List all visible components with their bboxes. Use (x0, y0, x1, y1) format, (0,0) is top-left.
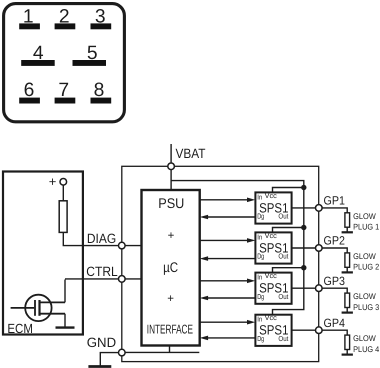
wire source to ground (64, 314, 66, 327)
arrowhead into U4 In (247, 279, 255, 284)
ground bar glow plug 2 (342, 271, 353, 273)
svg-text:+: + (168, 230, 175, 242)
svg-text:GP3: GP3 (324, 274, 346, 288)
junction Vcc rail to SPS1 (301, 185, 306, 190)
svg-text:GP2: GP2 (324, 234, 346, 248)
controller block U1 (142, 190, 200, 346)
pull-up resistor R1 (59, 201, 67, 233)
wire glow plug 3 to ground (346, 308, 348, 312)
pin GP1 (316, 205, 323, 212)
pin GP3 (316, 285, 323, 292)
svg-text:GLOW: GLOW (353, 252, 376, 261)
svg-text:PLUG 4: PLUG 4 (353, 345, 379, 354)
svg-text:Out: Out (278, 334, 288, 343)
pin DIAG (119, 242, 126, 249)
svg-text:Vcc: Vcc (265, 271, 278, 280)
arrowhead into U3 In (247, 238, 255, 243)
svg-text:GLOW: GLOW (353, 212, 376, 221)
svg-text:Vcc: Vcc (265, 231, 278, 240)
wire U2 Dg to U1 (206, 216, 255, 218)
svg-text:Dg: Dg (257, 252, 264, 261)
GP4 output circuit (322, 316, 379, 355)
svg-text:PSU: PSU (158, 195, 184, 211)
glow plug resistor 4 (345, 335, 350, 349)
svg-text:GLOW: GLOW (353, 292, 376, 301)
ECM ground bar (56, 326, 75, 328)
GP3 output circuit (322, 274, 379, 313)
wire U1 to U4 In (200, 280, 249, 282)
chassis ground bar (88, 365, 111, 368)
svg-text:Dg: Dg (257, 334, 264, 343)
arrowhead into U1 from U4 Dg (200, 296, 208, 301)
Q1 drain lead (40, 301, 66, 303)
pin 6 pad (19, 98, 40, 104)
pin CTRL (119, 276, 126, 283)
ECM block (3, 172, 83, 335)
wire DIAG pin to controller U1 (125, 245, 141, 247)
pin 5 pad (73, 60, 107, 66)
Q1 gate bar (34, 300, 36, 316)
pin 8 pad (91, 98, 112, 104)
svg-text:GLOW: GLOW (353, 334, 376, 343)
transistor Q1 body (25, 295, 51, 321)
wire U4 Dg to U1 (206, 297, 255, 299)
svg-text:DIAG: DIAG (87, 231, 116, 246)
wire GP3 to glow plug 3 (322, 288, 347, 293)
svg-text:Out: Out (278, 212, 288, 221)
svg-text:+: + (167, 293, 174, 305)
arrowhead into U5 In (247, 320, 255, 325)
pin GND (119, 349, 126, 356)
wire U3 Out to pin GP2 (292, 247, 316, 249)
wire U5 Out to pin GP4 (292, 329, 316, 331)
pin VBAT (168, 163, 175, 170)
smart power switch U5 SPS1 (255, 313, 291, 346)
svg-text:Dg: Dg (257, 292, 264, 301)
svg-text:PLUG 1: PLUG 1 (353, 223, 379, 232)
wire glow plug 1 to ground (346, 227, 348, 231)
wire R1 to DIAG pin (63, 232, 118, 245)
arrowhead into U1 from U2 Dg (200, 215, 208, 220)
svg-text:CTRL: CTRL (86, 264, 118, 279)
battery terminal node (60, 179, 67, 186)
wire GND pin to controller U1 (125, 346, 199, 353)
arrowhead into U1 from U5 Dg (200, 336, 208, 341)
connector J1 pinout body (4, 4, 125, 122)
wire drain to CTRL pin (65, 279, 119, 303)
svg-text:PLUG 3: PLUG 3 (353, 303, 379, 312)
glow plug resistor 1 (345, 213, 350, 227)
smart power switch U2 SPS1 (255, 191, 291, 224)
arrowhead into U1 from U3 Dg (200, 256, 208, 261)
svg-text:Out: Out (278, 292, 288, 301)
wire U1 to U5 In (200, 321, 249, 323)
wire U4 Vcc to rail (273, 268, 304, 273)
ground bar glow plug 4 (342, 354, 353, 356)
wire U1 to U2 In (200, 199, 249, 201)
wire U4 Out to pin GP3 (292, 287, 316, 289)
wire CTRL pin to controller U1 (125, 278, 141, 280)
wire terminal to resistor R1 (62, 185, 64, 201)
Q1 channel bar (38, 300, 40, 316)
svg-text:µC: µC (163, 259, 178, 275)
pin 1 pad (19, 23, 40, 29)
GP1 output circuit (322, 194, 379, 233)
VBAT stub wire (170, 144, 172, 163)
wire U2 Vcc to rail (273, 188, 304, 193)
svg-text:GP1: GP1 (324, 194, 346, 208)
pin 3 pad (91, 23, 112, 29)
wire GND pin to chassis ground (100, 353, 118, 366)
pin 4 pad (21, 60, 55, 66)
svg-text:INTERFACE: INTERFACE (147, 322, 193, 337)
smart power switch U3 SPS1 (255, 231, 291, 264)
svg-text:Vcc: Vcc (265, 313, 278, 322)
glow plug resistor 3 (345, 293, 350, 307)
pin 7 pad (55, 98, 76, 104)
svg-text:PLUG 2: PLUG 2 (353, 263, 379, 272)
wire VBAT pin into PSU (170, 170, 172, 190)
svg-text:ECM: ECM (7, 321, 33, 336)
junction Vcc rail to SPS3 (301, 265, 306, 270)
svg-text:Out: Out (278, 252, 288, 261)
pin 2 pad (55, 23, 76, 29)
module boundary outline (122, 166, 319, 361)
junction Vcc rail to SPS2 (301, 225, 306, 230)
wire glow plug 4 to ground (346, 350, 348, 354)
glow plug resistor 2 (345, 253, 350, 267)
arrowhead into U2 In (247, 198, 255, 203)
wire U3 Vcc to rail (273, 228, 304, 233)
smart power switch U4 SPS1 (255, 271, 291, 304)
pin GP2 (316, 245, 323, 252)
ground bar glow plug 1 (342, 231, 353, 233)
Q1 source lead (40, 313, 66, 315)
wire U3 Dg to U1 (206, 258, 255, 260)
svg-text:+: + (49, 174, 57, 189)
wire glow plug 2 to ground (346, 267, 348, 271)
Q1 gate wire (11, 307, 35, 309)
wire GP4 to glow plug 4 (322, 330, 347, 335)
svg-text:Vcc: Vcc (265, 191, 278, 200)
wire U5 Dg to U1 (206, 337, 255, 339)
wire GP2 to glow plug 2 (322, 248, 347, 253)
wire GP1 to glow plug 1 (322, 208, 347, 213)
GP2 output circuit (322, 234, 379, 273)
svg-text:Dg: Dg (257, 212, 264, 221)
wire U1 to U3 In (200, 239, 249, 241)
svg-text:VBAT: VBAT (176, 146, 206, 161)
pin GP4 (316, 327, 323, 334)
wire VBAT branch to Vcc rail (171, 181, 304, 315)
wire U2 Out to pin GP1 (292, 207, 316, 209)
ground bar glow plug 3 (342, 312, 353, 314)
svg-text:GND: GND (87, 335, 117, 350)
svg-text:GP4: GP4 (324, 316, 346, 330)
